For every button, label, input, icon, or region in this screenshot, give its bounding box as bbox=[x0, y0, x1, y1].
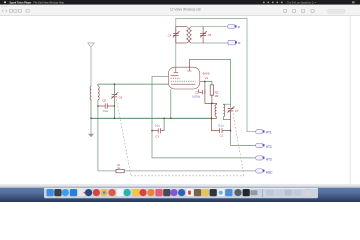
wire R1 row to AGC bbox=[98, 170, 116, 172]
wire antenna to coil bbox=[90, 48, 92, 86]
capacitor C3 bbox=[152, 128, 164, 133]
dock bbox=[44, 188, 318, 198]
wire secondary bottom to C7 leg bbox=[223, 117, 230, 120]
svg-text:C1: C1 bbox=[220, 134, 224, 138]
svg-text:C7: C7 bbox=[235, 109, 239, 113]
variable capacitor C6 bbox=[113, 84, 115, 94]
svg-text:C3: C3 bbox=[155, 135, 159, 139]
capacitor C1 bbox=[211, 118, 230, 133]
IF transformer C4 unit bbox=[176, 27, 189, 43]
ground bbox=[90, 118, 92, 134]
svg-text:V1: V1 bbox=[205, 76, 209, 80]
plug HT1 bbox=[256, 130, 265, 134]
wire C3 to bus stub bbox=[163, 118, 165, 130]
IF transformer C5 unit bbox=[189, 27, 191, 43]
wire C6 bottom to ground bus bbox=[113, 97, 115, 118]
wire R1 to AGC plug bbox=[124, 170, 256, 172]
window title bar bbox=[0, 5, 360, 16]
svg-text:0.001u: 0.001u bbox=[192, 95, 200, 99]
plug P2 bbox=[228, 40, 237, 44]
canvas bbox=[0, 16, 360, 185]
wire plate to C7 bbox=[189, 59, 230, 107]
svg-text:6AV6: 6AV6 bbox=[203, 71, 210, 75]
junction node dots bbox=[90, 81, 231, 132]
transformer T1 primary (antenna coil left winding) bbox=[90, 86, 91, 100]
plug HT2 bbox=[256, 143, 265, 147]
wire T1 primary bottom to ground bus bbox=[90, 100, 92, 118]
wire R2 bottom to node bbox=[211, 95, 213, 103]
svg-text:12 Valve Wireless.sch: 12 Valve Wireless.sch bbox=[170, 7, 201, 11]
plug P1 bbox=[228, 24, 237, 28]
wire grid to R2 bbox=[200, 80, 205, 82]
svg-text:0.1u: 0.1u bbox=[155, 123, 161, 127]
resistor R2 bbox=[210, 85, 214, 95]
svg-text:0.1u: 0.1u bbox=[103, 109, 109, 113]
resistor R1 bbox=[116, 169, 124, 172]
svg-text:0.1u: 0.1u bbox=[218, 123, 224, 127]
capacitor C8 bbox=[98, 103, 115, 108]
ground bus wire bbox=[91, 117, 211, 119]
output transformer secondary bbox=[223, 105, 225, 117]
gang link dashed horizontal bbox=[131, 175, 244, 177]
wire top feed / C4 left rail bbox=[176, 19, 256, 132]
gang link dashed C7 bbox=[233, 114, 244, 176]
wire T1 secondary top to grid line bbox=[98, 84, 168, 86]
wire node C to HT2 bbox=[231, 131, 256, 146]
svg-text:Thu 9:41 pm SparkUsr Q :=: Thu 9:41 pm SparkUsr Q := bbox=[287, 1, 317, 4]
menu bar bbox=[0, 0, 360, 5]
svg-text:HT3: HT3 bbox=[266, 158, 272, 162]
vacuum tube V1 (6AV6) bbox=[168, 67, 200, 89]
capacitor C2 bbox=[199, 81, 212, 103]
variable capacitor C5 bbox=[200, 27, 206, 43]
output transformer primary bbox=[211, 103, 216, 118]
svg-text:C8: C8 bbox=[102, 99, 106, 103]
svg-text:File Edit View Window Help: File Edit View Window Help bbox=[34, 1, 65, 4]
wire T1 secondary bottom down to R1 row bbox=[97, 100, 99, 171]
antenna bbox=[88, 43, 94, 47]
plug AGC bbox=[256, 169, 265, 173]
wire cathode to ground bus bbox=[170, 89, 172, 118]
gang link dashed C6 bbox=[117, 100, 132, 176]
variable capacitor C7 bbox=[228, 107, 234, 131]
svg-text:C4: C4 bbox=[168, 33, 172, 37]
svg-text:AGC: AGC bbox=[266, 171, 273, 175]
wire grid-line vertical to HT3 (tube upper-left lead) bbox=[152, 76, 256, 158]
svg-text:C5: C5 bbox=[208, 33, 212, 37]
wire C5 bottom rail to plug P2 bbox=[192, 42, 228, 44]
variable capacitor C4 bbox=[173, 27, 179, 43]
wire C5 top rail to plug P1 bbox=[192, 26, 228, 28]
svg-text:HT2: HT2 bbox=[266, 145, 272, 149]
transformer T1 secondary (antenna coil right winding) bbox=[98, 86, 99, 100]
svg-text:Spark Triton Player: Spark Triton Player bbox=[10, 1, 32, 4]
svg-text:C6: C6 bbox=[119, 95, 123, 99]
plug HT3 bbox=[256, 156, 265, 160]
wire secondary top to C7 bbox=[223, 103, 230, 105]
svg-text:HT1: HT1 bbox=[266, 131, 272, 135]
